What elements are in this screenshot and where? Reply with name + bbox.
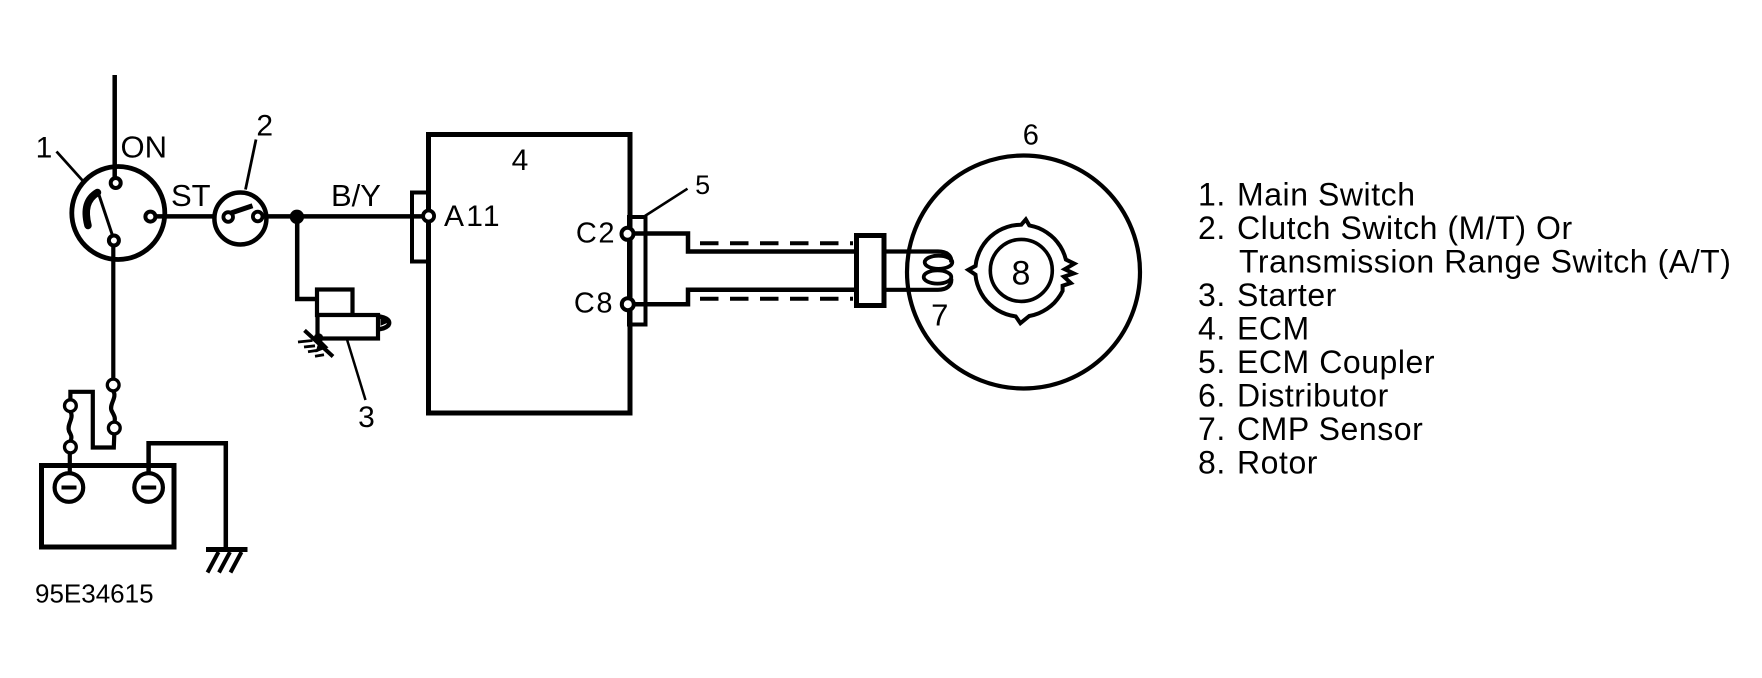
battery terminal left minus — [62, 486, 77, 490]
svg-text:2: 2 — [256, 109, 273, 142]
clutch switch blade — [231, 206, 253, 213]
svg-text:1.: 1. — [1198, 176, 1226, 212]
ground stroke 3 — [231, 552, 242, 573]
svg-text:8.: 8. — [1198, 444, 1226, 480]
svg-text:ST: ST — [171, 178, 211, 213]
ground stroke 2 — [219, 552, 230, 573]
wire D to battery — [68, 453, 72, 474]
svg-text:Distributor: Distributor — [1237, 377, 1389, 413]
main switch body (1) — [72, 167, 165, 260]
svg-text:Main Switch: Main Switch — [1237, 176, 1416, 212]
wire C2 top conductor — [632, 234, 857, 252]
ground bar — [206, 547, 248, 552]
fusible wiggle A-B — [111, 391, 115, 422]
main switch terminal ST — [145, 212, 155, 222]
wire junction down to starter — [297, 217, 318, 299]
distributor body (6) — [907, 156, 1140, 389]
starter motor body — [318, 315, 379, 339]
CMP sensor coil loop 2 — [924, 270, 952, 283]
rotor center circle — [990, 239, 1052, 301]
svg-text:6.: 6. — [1198, 377, 1226, 413]
svg-text:ECM: ECM — [1237, 310, 1310, 346]
starter ground hatch 1 — [298, 341, 313, 343]
connector circle A — [107, 379, 119, 391]
svg-text:2.: 2. — [1198, 210, 1226, 246]
svg-text:Starter: Starter — [1237, 277, 1337, 313]
svg-text:C8: C8 — [574, 288, 614, 320]
svg-text:5: 5 — [695, 170, 710, 200]
svg-text:3.: 3. — [1198, 277, 1226, 313]
starter solenoid (3) — [317, 290, 353, 316]
battery terminal right minus — [141, 486, 156, 490]
svg-text:Clutch Switch (M/T) Or: Clutch Switch (M/T) Or — [1237, 210, 1573, 246]
clutch switch contact right — [253, 212, 263, 222]
svg-text:7.: 7. — [1198, 411, 1226, 447]
wire fusible jog — [70, 392, 114, 448]
clutch switch contact left — [223, 212, 233, 222]
fusible wiggle C-D — [69, 412, 72, 442]
leader label 5 — [645, 189, 688, 216]
leader label 2 — [246, 140, 257, 190]
svg-text:C2: C2 — [576, 218, 616, 250]
ECM coupler (5) — [629, 217, 646, 325]
shield dashed top — [700, 241, 853, 245]
shield dashed bottom — [700, 297, 853, 301]
main switch key crescent — [86, 193, 97, 226]
ECM box (4) — [429, 135, 631, 414]
main switch wiper line — [99, 194, 113, 236]
svg-text:ON: ON — [121, 130, 168, 165]
wire main switch B down — [111, 246, 115, 381]
svg-text:8: 8 — [1012, 254, 1031, 292]
leader label 1 — [57, 152, 84, 182]
clutch switch body (2) — [214, 193, 266, 245]
starter ground hatch 2 — [304, 346, 315, 347]
rotor cam ring (8) — [968, 219, 1074, 323]
svg-text:4: 4 — [512, 144, 529, 177]
wire battery right to ground — [149, 443, 226, 549]
connector circle D — [65, 441, 77, 453]
starter ground hatch 4 — [315, 355, 324, 356]
starter ground arrowhead — [316, 339, 329, 353]
svg-text:B/Y: B/Y — [331, 178, 381, 213]
svg-text:Transmission Range Switch (A/T: Transmission Range Switch (A/T) — [1239, 243, 1731, 279]
svg-text:1: 1 — [36, 132, 53, 165]
main switch terminal B — [109, 236, 119, 246]
svg-text:5.: 5. — [1198, 344, 1226, 380]
wire main switch top feed — [112, 75, 117, 180]
CMP sensor coil loop 1 (7) — [925, 256, 953, 269]
wire connector to coil top — [884, 252, 951, 263]
inline connector block — [857, 236, 885, 306]
wire junction to A11 — [297, 214, 425, 219]
junction node B/Y — [290, 210, 304, 224]
wire clutch switch to junction — [263, 214, 301, 219]
svg-text:7: 7 — [931, 298, 948, 333]
starter ground dot — [314, 333, 324, 343]
svg-text:4.: 4. — [1198, 310, 1226, 346]
starter ground main stroke — [305, 330, 334, 356]
C2 pin — [622, 228, 634, 240]
battery box — [42, 466, 175, 548]
svg-text:6: 6 — [1023, 120, 1039, 152]
starter nose wedge — [381, 318, 390, 326]
A11 terminal bracket — [412, 193, 429, 262]
connector circle C — [65, 400, 77, 412]
battery terminal right — [134, 473, 163, 502]
battery terminal left — [55, 473, 84, 502]
svg-text:3: 3 — [358, 401, 375, 434]
main switch terminal ON — [111, 178, 121, 188]
ground stroke 1 — [208, 552, 219, 573]
starter ground hatch 3 — [308, 350, 318, 352]
starter nose — [379, 317, 390, 330]
wire connector to coil bottom — [884, 279, 951, 290]
C8 pin — [622, 298, 634, 310]
svg-text:A11: A11 — [444, 200, 502, 233]
svg-text:ECM Coupler: ECM Coupler — [1237, 344, 1435, 380]
wire C8 bottom conductor — [632, 290, 857, 304]
leader label 3 — [347, 340, 366, 401]
A11 terminal pin — [423, 211, 434, 222]
svg-text:Rotor: Rotor — [1237, 444, 1318, 480]
wire ST to clutch switch — [156, 214, 217, 219]
connector circle B — [108, 422, 120, 434]
svg-text:95E34615: 95E34615 — [35, 579, 154, 609]
svg-text:CMP Sensor: CMP Sensor — [1237, 411, 1423, 447]
